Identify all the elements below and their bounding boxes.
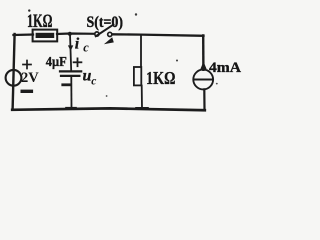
- current source Is circle: [193, 70, 213, 90]
- svg-text:c: c: [83, 41, 89, 55]
- plus sign for u_c: [74, 58, 82, 66]
- current arrow i_c head: [68, 45, 73, 51]
- voltage source Us circle: [6, 70, 22, 86]
- svg-text:c: c: [91, 76, 96, 88]
- junction node at top of capacitor branch: [68, 32, 72, 36]
- wire right vertical lower: [203, 89, 205, 110]
- speck on bottom area: [106, 95, 108, 97]
- wire switch-to-right-corner segment: [112, 34, 204, 36]
- current source Is bar: [194, 79, 213, 81]
- speck above right resistor label: [176, 60, 178, 62]
- switch S blade: [96, 25, 114, 37]
- svg-text:i: i: [75, 36, 80, 53]
- capacitor C bottom plate: [61, 75, 79, 77]
- wire left vertical: [13, 34, 15, 110]
- svg-text:S(t=0): S(t=0): [87, 14, 124, 31]
- wire bottom horizontal: [12, 108, 205, 110]
- junction foot at bottom of R2 branch: [137, 107, 148, 110]
- resistor R2 box (vertical): [134, 67, 141, 85]
- speck right of S(t=0): [135, 13, 137, 15]
- svg-text:1KΩ: 1KΩ: [27, 12, 53, 32]
- minus sign for u_c: [63, 83, 70, 86]
- switch S motion arrowhead: [104, 37, 114, 44]
- wire resistor-to-switch segment: [57, 32, 95, 35]
- switch S right terminal: [108, 32, 112, 36]
- capacitor C top plate: [60, 70, 81, 72]
- resistor R1 box (horizontal, top-left): [33, 30, 58, 42]
- resistor R1 inner smudge: [36, 33, 55, 38]
- wire right vertical upper: [202, 36, 205, 70]
- wire resistor R2 branch lower: [141, 86, 143, 109]
- current source arrowhead: [200, 62, 206, 70]
- junction foot at bottom of capacitor branch: [67, 107, 76, 110]
- wire capacitor branch lower: [70, 78, 72, 110]
- wire top-left horizontal segment: [14, 33, 34, 36]
- svg-text:4mA: 4mA: [209, 60, 241, 76]
- speck above 1KOhm label: [28, 9, 30, 11]
- svg-text:4μF: 4μF: [46, 55, 67, 70]
- plus sign of source: [23, 61, 31, 69]
- svg-text:2V: 2V: [21, 70, 39, 86]
- wire resistor R2 branch upper: [140, 35, 142, 67]
- wire capacitor branch upper with current arrow: [70, 34, 71, 71]
- minus sign of source: [22, 90, 31, 93]
- switch S left terminal: [95, 32, 99, 36]
- speck right of current source: [216, 83, 218, 85]
- svg-text:1KΩ: 1KΩ: [146, 68, 176, 88]
- svg-text:u: u: [83, 68, 92, 85]
